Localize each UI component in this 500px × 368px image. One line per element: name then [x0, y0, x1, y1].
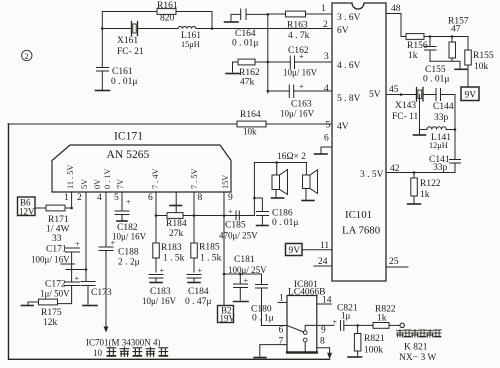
resistor R175 12k — [28, 299, 72, 328]
svg-text:7 . 4V: 7 . 4V — [151, 168, 160, 189]
svg-text:8: 8 — [320, 337, 325, 347]
svg-text:4 . 6V: 4 . 6V — [337, 61, 361, 71]
svg-text:4: 4 — [324, 84, 329, 94]
pin 24 IC101 — [314, 257, 332, 267]
terminal K821 — [400, 323, 404, 327]
pin 9 IC171 — [224, 192, 233, 306]
resistor R163 4.7k — [268, 11, 332, 41]
pin 7 IC171 ground — [170, 192, 182, 213]
svg-text:470μ/ 25V: 470μ/ 25V — [219, 231, 258, 241]
pin 9 IC801 — [317, 325, 334, 335]
capacitor C164 0.01u — [232, 9, 268, 49]
svg-text:45: 45 — [389, 85, 399, 95]
svg-text:C181: C181 — [234, 255, 255, 265]
svg-text:1k: 1k — [408, 51, 418, 61]
svg-text:12k: 12k — [43, 318, 58, 328]
capacitor C161 0.01u — [97, 29, 138, 90]
svg-text:+: + — [75, 274, 80, 283]
svg-text:1: 1 — [321, 4, 326, 14]
svg-text:4: 4 — [97, 193, 102, 203]
svg-text:C186: C186 — [272, 209, 293, 219]
svg-text:12V: 12V — [19, 207, 35, 217]
annotation external audio input — [397, 330, 442, 338]
svg-text:15V: 15V — [221, 175, 230, 189]
svg-text:1 . 5k: 1 . 5k — [163, 254, 185, 264]
svg-text:820: 820 — [160, 14, 175, 24]
svg-text:1k: 1k — [420, 190, 430, 200]
svg-text:AN 5265: AN 5265 — [107, 148, 150, 161]
svg-text:R171: R171 — [48, 215, 69, 225]
svg-text:5: 5 — [114, 193, 119, 203]
capacitor C171 100u/16V — [31, 240, 80, 270]
svg-text:33: 33 — [52, 234, 62, 244]
svg-text:R163: R163 — [287, 21, 308, 31]
wire: speaker feed — [254, 163, 306, 216]
svg-text:+: + — [228, 207, 233, 216]
svg-text:R155: R155 — [473, 51, 494, 61]
svg-text:1: 1 — [64, 193, 69, 203]
capacitor C141 33p — [429, 130, 461, 174]
IC IC801 LC4066B body — [287, 280, 325, 353]
svg-text:0 . 1V: 0 . 1V — [103, 168, 112, 189]
svg-text:IC101: IC101 — [345, 209, 372, 221]
wire: pin6-pin8 feedback net — [156, 215, 254, 217]
svg-text:IC701(M 34300N 4): IC701(M 34300N 4) — [86, 338, 161, 348]
pin 48 IC101 — [386, 4, 401, 37]
svg-text:1μ/ 50V: 1μ/ 50V — [40, 289, 70, 299]
crystal X143 FC-11 — [392, 88, 423, 123]
junction R162/C162 — [267, 61, 270, 64]
wire: bias bus vertical — [267, 14, 269, 93]
svg-text:0 . 01μ: 0 . 01μ — [232, 39, 258, 49]
svg-text:11 . 5V: 11 . 5V — [66, 165, 75, 189]
svg-text:+: + — [198, 266, 203, 275]
svg-text:27k: 27k — [169, 229, 184, 239]
resistor R122 1k — [411, 173, 441, 204]
pin 5 IC171 — [114, 192, 122, 211]
svg-text:10μ/ 16V: 10μ/ 16V — [280, 109, 315, 119]
capacitor C173 — [81, 270, 112, 305]
ground C164 — [225, 14, 241, 22]
svg-text:0 . 47μ: 0 . 47μ — [185, 297, 211, 307]
svg-text:6: 6 — [324, 134, 329, 144]
supply box B2 19V — [218, 306, 236, 324]
junction R157 — [451, 35, 454, 38]
svg-text:19V: 19V — [220, 314, 236, 324]
capacitor C821 1u — [333, 304, 358, 331]
svg-text:33p: 33p — [433, 163, 448, 173]
pin 25 IC101 — [386, 257, 408, 267]
svg-text:0 . 01μ: 0 . 01μ — [272, 218, 298, 228]
speaker SP1 — [272, 163, 288, 198]
resistor R164 10k — [237, 110, 266, 137]
svg-text:5: 5 — [326, 121, 331, 131]
ground R122 — [408, 203, 421, 205]
capacitor C144 33p — [423, 89, 455, 130]
wire: pin5 / box top border — [8, 123, 332, 125]
svg-text:2: 2 — [25, 52, 29, 61]
svg-text:R164: R164 — [240, 110, 261, 120]
ground SP2 — [302, 200, 314, 202]
wire: C181/C180 net — [224, 273, 262, 275]
pin 8 IC801 — [317, 337, 332, 360]
pin 7 IC801 — [260, 337, 287, 357]
svg-text:C173: C173 — [91, 288, 112, 298]
junction at C161 — [101, 27, 104, 30]
svg-text:R175: R175 — [41, 308, 62, 318]
svg-text:2: 2 — [77, 193, 82, 203]
ground C173 — [83, 305, 97, 307]
IC IC101 LA7680 body — [332, 3, 386, 281]
capacitor C185 470u/25V — [219, 207, 258, 241]
supply box B6 12V — [18, 197, 36, 217]
svg-text:+: + — [160, 266, 165, 275]
junction L141 right — [454, 128, 457, 131]
svg-text:9: 9 — [228, 193, 233, 203]
svg-text:K 821: K 821 — [404, 343, 428, 353]
IC IC171 AN5265 body — [52, 130, 231, 193]
junction C181 wire top — [223, 273, 226, 276]
svg-text:47: 47 — [451, 25, 461, 35]
inductor L141 12uH — [420, 127, 456, 150]
svg-text:10μ/ 16V: 10μ/ 16V — [112, 232, 147, 242]
wire: R161 top branch — [102, 12, 212, 29]
svg-text:1k: 1k — [377, 314, 387, 324]
svg-text:9V: 9V — [465, 91, 477, 101]
svg-text:3 . 5V: 3 . 5V — [360, 170, 384, 180]
svg-text:+: + — [244, 276, 249, 285]
junction pin9 — [223, 214, 226, 217]
svg-text:100k: 100k — [364, 346, 383, 356]
pin 14 IC801 — [317, 296, 332, 306]
junction C164/R163 — [267, 13, 270, 16]
svg-text:47k: 47k — [240, 78, 255, 88]
capacitor C163 10u/16V — [280, 82, 315, 119]
svg-text:10μ/ 16V: 10μ/ 16V — [142, 296, 177, 306]
svg-text:5 . 8V: 5 . 8V — [337, 94, 361, 104]
svg-text:C188: C188 — [118, 248, 139, 258]
pin 6 IC171 — [148, 192, 156, 243]
svg-text:NX− 3 W: NX− 3 W — [399, 353, 436, 363]
svg-text:5V: 5V — [80, 179, 89, 189]
svg-text:9: 9 — [321, 326, 326, 336]
pin 6 IC101 with ground — [315, 134, 333, 155]
wire: 9V rail top right — [401, 37, 468, 51]
svg-text:LC4066B: LC4066B — [288, 288, 325, 298]
inductor L161 15uH — [178, 26, 201, 49]
svg-text:R184: R184 — [166, 219, 187, 229]
svg-text:2: 2 — [323, 20, 328, 30]
svg-text:+: + — [75, 240, 80, 249]
ground C161 — [96, 90, 110, 92]
svg-text:5V: 5V — [369, 90, 381, 100]
supply box 9V left — [286, 244, 303, 257]
wire: pin3 branch — [255, 61, 332, 63]
plate bar C171 lower — [61, 263, 75, 265]
capacitor C162 10u/16V — [283, 46, 318, 78]
junction pin8 — [193, 214, 196, 217]
svg-text:FC- 21: FC- 21 — [117, 47, 144, 57]
junction speaker1 — [275, 161, 278, 164]
svg-text:10k: 10k — [474, 62, 489, 72]
resistor R155 10k — [465, 50, 494, 87]
junction C163 — [267, 90, 270, 93]
pin 2 IC171 — [77, 192, 86, 270]
box border left section — [9, 124, 330, 359]
volume control arrow to IC701 — [104, 327, 109, 333]
resistor R171 33 1/4W — [35, 205, 72, 244]
svg-text:3: 3 — [324, 52, 329, 62]
svg-text:+: + — [126, 198, 131, 207]
wire+ground X143 tank — [414, 95, 426, 136]
wire: C171 to pin2 line — [66, 269, 86, 271]
svg-text:+: + — [299, 82, 304, 91]
svg-text:25: 25 — [389, 257, 399, 267]
pin 45 IC101 — [386, 85, 416, 96]
resistor R162 47k — [238, 59, 260, 87]
ground C181 — [234, 301, 249, 303]
svg-text:12μH: 12μH — [429, 141, 448, 150]
pin 42 IC101 — [386, 164, 455, 174]
svg-text:0 . 1μ: 0 . 1μ — [252, 314, 274, 324]
svg-text:10k: 10k — [243, 127, 257, 137]
svg-text:2 . 2μ: 2 . 2μ — [118, 258, 140, 268]
capacitor C172 1u/50V — [40, 270, 80, 304]
svg-text:0 . 01μ: 0 . 01μ — [423, 75, 449, 85]
junction R821 — [356, 324, 359, 327]
annotation 10-pin volume control — [93, 347, 168, 358]
svg-text:+: + — [333, 318, 338, 327]
node marker circled-2 — [22, 50, 32, 61]
svg-text:R183: R183 — [161, 243, 182, 253]
capacitor C184 0.47u — [185, 266, 211, 307]
junction at L161 right — [211, 27, 214, 30]
ground R821 — [348, 356, 362, 358]
pin 4 IC171 — [97, 192, 106, 247]
svg-text:C144: C144 — [433, 102, 454, 112]
ground C182 — [117, 220, 127, 222]
svg-text:R185: R185 — [199, 243, 220, 253]
ground R162 — [226, 62, 239, 74]
svg-text:10: 10 — [93, 348, 103, 358]
svg-text:X143: X143 — [395, 101, 416, 111]
ground pin7 — [254, 357, 266, 359]
svg-text:7V: 7V — [116, 179, 125, 189]
junction R171/pin1 — [70, 207, 73, 210]
resistor R161 — [157, 1, 178, 24]
capacitor C186 0.01u — [254, 198, 298, 228]
svg-text:R161: R161 — [157, 1, 178, 11]
svg-text:LA 7680: LA 7680 — [342, 225, 380, 237]
capacitor C180 0.1u — [251, 274, 287, 326]
svg-text:9V: 9V — [289, 246, 301, 256]
svg-text:C184: C184 — [188, 287, 209, 297]
svg-text:4V: 4V — [337, 122, 349, 132]
junction C155 — [429, 35, 432, 38]
svg-text:1/ 4W: 1/ 4W — [46, 225, 70, 235]
junction C186 tap — [253, 197, 256, 200]
speaker SP2 — [303, 163, 318, 200]
capacitor C155 0.01u — [423, 37, 449, 85]
svg-text:6: 6 — [148, 193, 153, 203]
resistor R185 1.5k — [191, 243, 222, 273]
ground SP1 — [272, 197, 284, 199]
svg-text:100μ/ 16V: 100μ/ 16V — [31, 255, 70, 265]
svg-text:FC- 11: FC- 11 — [392, 112, 419, 122]
svg-text:R162: R162 — [239, 68, 260, 78]
resistor R821 100k — [354, 325, 384, 355]
svg-text:10μ/ 16V: 10μ/ 16V — [283, 68, 318, 78]
supply box 9V right — [461, 87, 479, 101]
svg-text:C155: C155 — [425, 65, 446, 75]
svg-text:IC171: IC171 — [114, 130, 143, 143]
svg-text:6: 6 — [279, 326, 284, 336]
capacitor C182 10u/16V — [112, 198, 147, 242]
svg-text:7 . 5V: 7 . 5V — [190, 168, 199, 189]
junction pin2 line — [85, 268, 88, 271]
resistor R157 47 — [448, 17, 469, 62]
svg-text:15μH: 15μH — [181, 40, 200, 49]
ground R175 — [22, 305, 34, 307]
pin 1 IC801 — [278, 294, 287, 304]
analog switch internals IC801 — [287, 325, 317, 353]
svg-text:X161: X161 — [117, 36, 138, 46]
ground C183 — [150, 282, 162, 284]
resistor R822 1k — [358, 305, 400, 329]
resistor R184 27k — [166, 213, 187, 239]
svg-text:6V: 6V — [337, 26, 349, 36]
junction R122 — [413, 171, 416, 174]
svg-text:C185: C185 — [225, 221, 246, 231]
pin 11 IC101 — [302, 241, 332, 251]
svg-text:8: 8 — [198, 193, 203, 203]
wire+ground C155/R157 — [430, 61, 467, 69]
junction C181 — [239, 273, 242, 276]
capacitor C188 2.2u — [99, 239, 140, 328]
pin 8 IC171 — [194, 192, 203, 243]
svg-text:16Ω× 2: 16Ω× 2 — [277, 152, 306, 162]
resistor R183 1.5k — [153, 243, 185, 272]
svg-text:1μ: 1μ — [341, 311, 351, 321]
svg-text:33p: 33p — [434, 113, 449, 123]
crystal X161 FC-21 — [117, 22, 144, 58]
ground C186 — [257, 225, 269, 227]
svg-text:C161: C161 — [112, 67, 133, 77]
resistor R156 1k — [406, 34, 428, 61]
svg-text:C164: C164 — [235, 29, 256, 39]
svg-text:R122: R122 — [420, 179, 441, 189]
svg-text:1 . 5k: 1 . 5k — [200, 254, 222, 264]
svg-text:3 . 6V: 3 . 6V — [337, 13, 361, 23]
svg-text:R821: R821 — [364, 334, 385, 344]
svg-text:0 . 01μ: 0 . 01μ — [111, 77, 137, 87]
pin 1 IC171 — [64, 192, 72, 208]
capacitor C183 10u/16V — [142, 266, 177, 306]
svg-text:+: + — [299, 52, 304, 61]
junction pin6 — [155, 214, 158, 217]
svg-text:4 . 7k: 4 . 7k — [288, 31, 310, 41]
svg-text:0V: 0V — [93, 179, 102, 189]
svg-text:C171: C171 — [46, 245, 67, 255]
wire: pin2 main net — [102, 28, 332, 30]
capacitor C181 100u/25V — [228, 255, 267, 300]
wire: pin4 branch — [268, 90, 332, 92]
ground C184 — [188, 282, 200, 284]
svg-text:48: 48 — [391, 4, 401, 14]
